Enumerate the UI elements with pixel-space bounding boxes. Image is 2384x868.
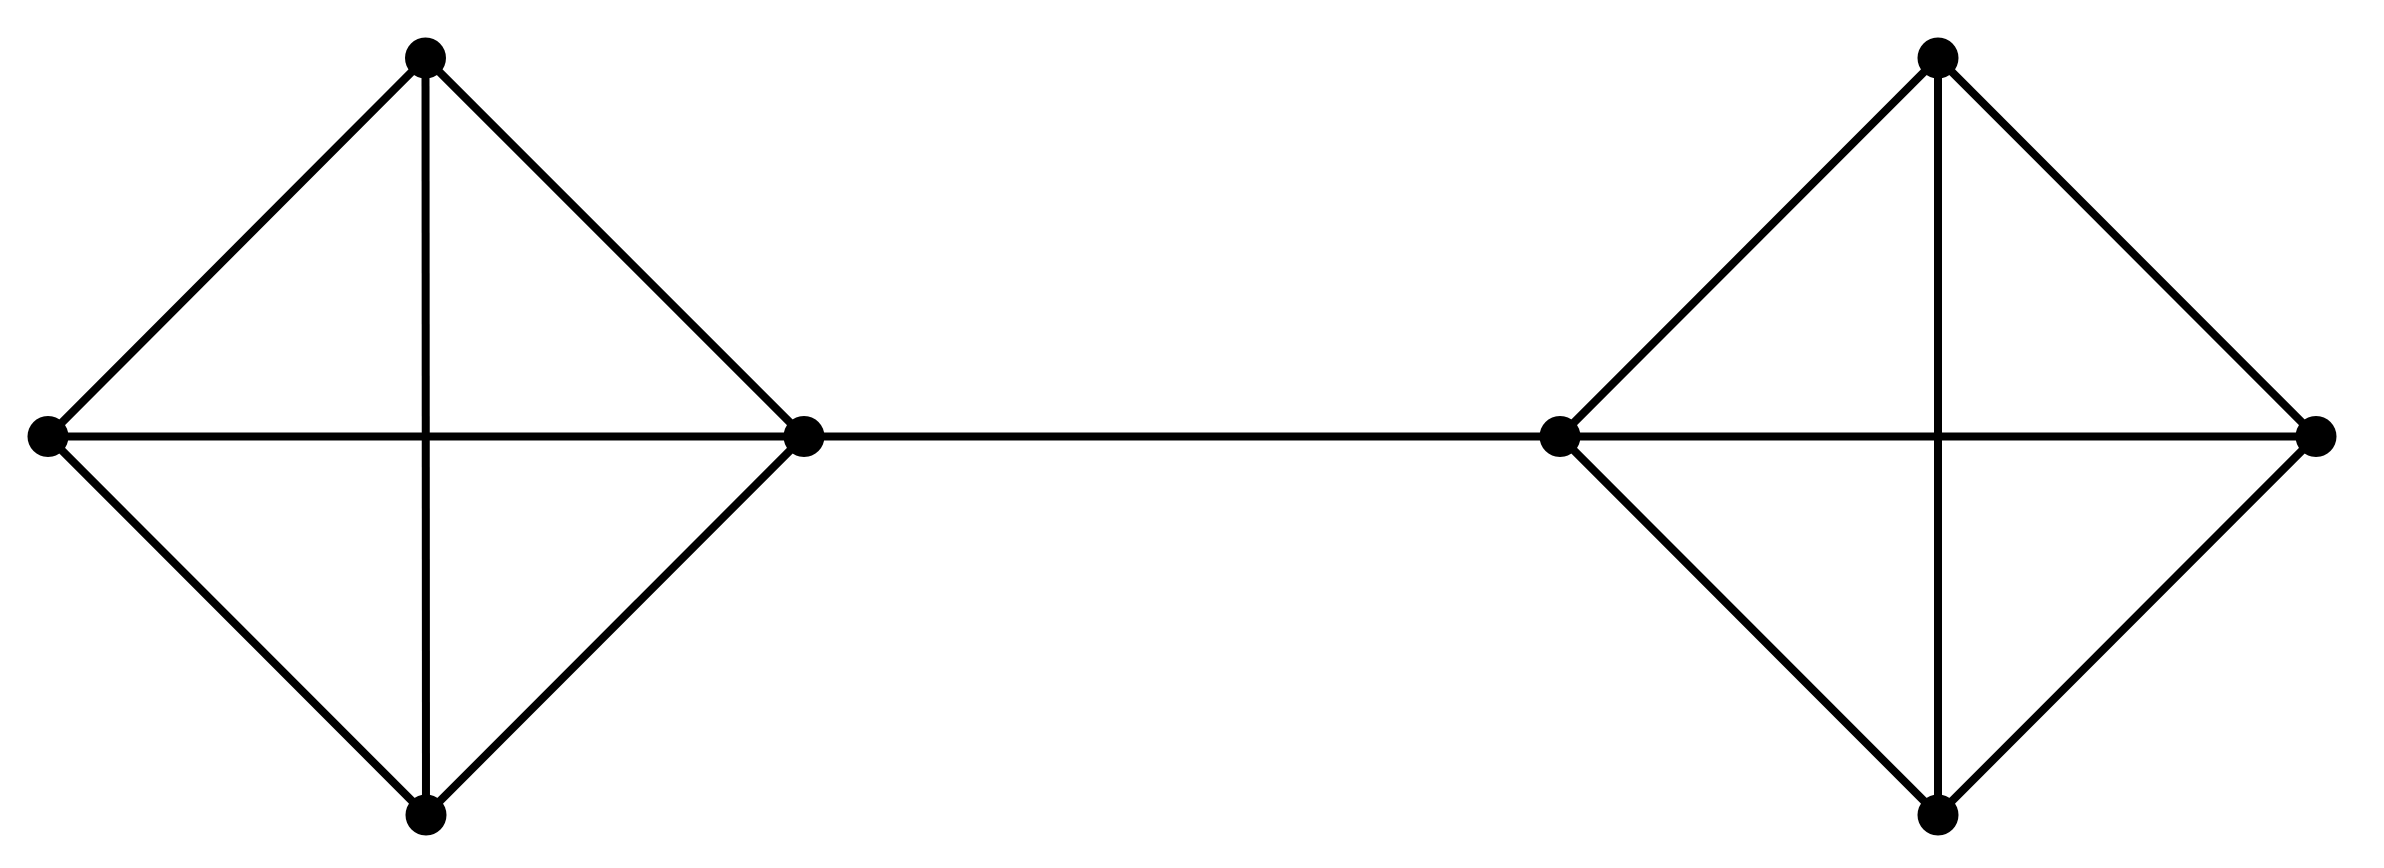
- wire edge E-G (right K4 horizontal diagonal): [1560, 433, 2316, 441]
- wire edge A-B (left K4 upper-left side): [48, 58, 426, 437]
- wire edge G-H (right K4 lower-right side): [1938, 437, 2316, 816]
- node F (right K4 top vertex): [1918, 38, 1959, 79]
- node A (left K4 top vertex): [405, 38, 446, 79]
- wire edge C-E (bridge between the two K4 cliques): [804, 433, 1560, 441]
- wire edge F-H (right K4 vertical diagonal): [1934, 58, 1942, 815]
- node E (right K4 left vertex, bridge endpoint): [1540, 416, 1581, 457]
- node C (left K4 right vertex, bridge endpoint): [784, 416, 825, 457]
- wire edge F-G (right K4 upper-right side): [1938, 58, 2316, 437]
- wire edge B-C (left K4 horizontal diagonal): [48, 433, 804, 441]
- node B (left K4 left vertex): [28, 416, 69, 457]
- wire edge A-D (left K4 vertical diagonal): [422, 58, 431, 815]
- wire edge A-C (left K4 upper-right side): [426, 58, 805, 437]
- wire edge E-F (right K4 upper-left side): [1560, 58, 1938, 437]
- wire edge B-D (left K4 lower-left side): [48, 437, 426, 816]
- node D (left K4 bottom vertex): [406, 795, 447, 836]
- node G (right K4 right vertex): [2296, 416, 2337, 457]
- wire edge E-H (right K4 lower-left side): [1560, 437, 1938, 816]
- wire edge C-D (left K4 lower-right side): [426, 437, 804, 816]
- node H (right K4 bottom vertex): [1918, 795, 1959, 836]
